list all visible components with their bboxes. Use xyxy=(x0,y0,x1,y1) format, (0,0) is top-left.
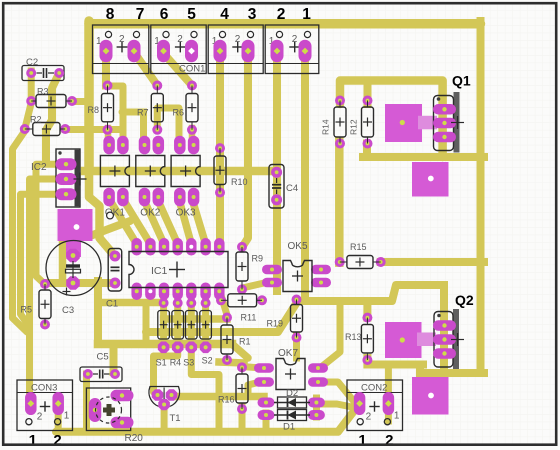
resistor R12 xyxy=(349,96,374,149)
wire S3 bottom to bottom bus xyxy=(191,347,219,431)
wire optocoupler pin to IC1 pin diagonal xyxy=(123,199,150,244)
wire left bus continues past IC2 to C1 xyxy=(89,166,113,254)
svg-text:7: 7 xyxy=(136,6,145,23)
hole marker right of IC2 xyxy=(107,212,114,219)
wire R13 bottom rail right xyxy=(367,358,423,365)
svg-text:R10: R10 xyxy=(231,177,248,187)
resistor R1 xyxy=(221,313,251,366)
svg-text:OK5: OK5 xyxy=(288,241,308,252)
resistor R15 xyxy=(335,242,386,269)
wire CON1 pin1 down through OK5 to rail xyxy=(301,51,309,301)
svg-text:R11: R11 xyxy=(241,313,257,323)
resistor R10 xyxy=(214,143,248,197)
connector CON3 xyxy=(17,380,73,449)
resistor R8 xyxy=(88,81,114,135)
capacitor C2 xyxy=(22,57,64,81)
wire CON1 pin8 to R8 xyxy=(102,51,110,86)
IC IC1 xyxy=(129,238,228,300)
optocoupler OK1 xyxy=(100,136,129,219)
wire R4 bottom to T1 left xyxy=(154,347,178,395)
wire rail to S1 top xyxy=(98,299,163,307)
wire rail to R1 top xyxy=(164,315,227,323)
resistor R16 xyxy=(218,362,248,414)
svg-text:R20: R20 xyxy=(125,433,144,444)
pad: plane below Q1 xyxy=(412,162,449,197)
wire diode column to CON2 xyxy=(317,404,353,407)
wire right bus vertical xyxy=(477,21,485,373)
wire jumper S3 column xyxy=(188,289,195,347)
jumper/resistor R4 xyxy=(170,298,184,368)
svg-text:IC2: IC2 xyxy=(31,162,47,173)
svg-text:D2: D2 xyxy=(286,388,298,399)
diode D2 xyxy=(258,388,325,408)
resistor R7 xyxy=(137,81,163,135)
jumper/resistor S2 xyxy=(200,298,213,366)
svg-text:3: 3 xyxy=(248,6,257,23)
svg-text:2: 2 xyxy=(53,432,61,449)
connector CON1 (4 blocks, pins 8..1) xyxy=(93,25,319,74)
wire C2 left pad to R3 left xyxy=(28,71,35,101)
wire top bus horizontal xyxy=(89,19,481,29)
pin numbers 8..1 xyxy=(106,6,312,23)
svg-text:8: 8 xyxy=(106,6,115,23)
wire R16 bottom to bottom bus xyxy=(239,407,246,431)
svg-text:2: 2 xyxy=(366,412,372,423)
wire R19 bottom down to OK7 xyxy=(293,336,300,358)
resistor R2 xyxy=(20,115,70,136)
wire Q1 top feed under package xyxy=(340,81,443,158)
IC IC2 xyxy=(31,149,87,207)
wire T1 rail branch up to OK7 pin xyxy=(248,382,260,396)
svg-text:IC1: IC1 xyxy=(151,265,168,277)
wire CON1 pin3 down to R9 xyxy=(242,51,248,247)
svg-text:OK2: OK2 xyxy=(140,208,160,219)
svg-text:R1: R1 xyxy=(239,337,251,347)
wire horizontal through OK1 OK2 OK3 to C4 xyxy=(85,167,273,176)
jumper/resistor S3 xyxy=(183,298,197,368)
svg-text:R19: R19 xyxy=(267,319,284,329)
wire R8 bottom to OK1 pin stub xyxy=(105,128,112,140)
wire optocoupler pin to IC1 pin diagonal xyxy=(109,199,137,244)
svg-text:R2: R2 xyxy=(30,115,42,125)
pad: large plane below IC2 xyxy=(58,209,93,257)
wire D2 D1 right pads join xyxy=(313,398,320,417)
wire diagonal to left bus xyxy=(90,221,130,236)
pad: bar to Q2 xyxy=(417,333,436,347)
wire IC1 pin down to rail xyxy=(133,288,140,303)
optocoupler OK7 xyxy=(254,348,328,390)
wire CON1 pin7 diagonal to R7 xyxy=(136,55,157,86)
svg-text:5: 5 xyxy=(187,6,196,23)
svg-text:C3: C3 xyxy=(62,305,74,316)
svg-text:T1: T1 xyxy=(170,413,181,424)
svg-text:1: 1 xyxy=(394,411,400,422)
resistor R14 xyxy=(321,96,347,149)
svg-text:S2: S2 xyxy=(202,356,213,366)
wire OK2 left pin stub up xyxy=(140,112,147,140)
svg-text:1: 1 xyxy=(302,6,311,23)
wire OK7 pin up to rail xyxy=(320,304,340,368)
wire R8 top elbow to OK1 pin xyxy=(108,86,124,140)
wire bottom bus to CON2 pad2 xyxy=(56,407,357,432)
wire Q1 bottom rail xyxy=(363,153,484,161)
wire R2 left down left edge then join xyxy=(13,131,28,332)
resistor R19 xyxy=(267,295,303,343)
svg-text:1: 1 xyxy=(29,432,37,449)
pad: Q1 drain plane xyxy=(385,104,422,142)
wire rail drop to C5 right pad xyxy=(110,344,118,372)
wire Q2 bottom link xyxy=(427,369,484,377)
wire R1 bottom rail to R16 top xyxy=(219,362,244,363)
wire rail drop into Q2 pad square xyxy=(416,365,424,381)
wire R16 top to OK7 pin xyxy=(242,367,262,369)
CON1 pads pins 8..1 xyxy=(100,40,312,63)
svg-text:R8: R8 xyxy=(88,105,100,115)
resistor R5 xyxy=(21,279,52,330)
wire D1 left to bottom bus xyxy=(263,413,270,431)
wire R12 top up to feed xyxy=(364,81,372,105)
svg-text:2: 2 xyxy=(385,432,393,449)
wire plane below IC2 down through C3 to rail xyxy=(59,241,67,281)
capacitor C3 electrolytic xyxy=(46,241,101,317)
wire jog to OK2 pin xyxy=(122,109,144,116)
svg-text:S1: S1 xyxy=(156,358,167,368)
wire CON1 pin2 down through C4 to OK5 xyxy=(273,51,281,291)
wire rail drop through CON2 pad1 to hole xyxy=(385,364,392,421)
wire R15 right to right bus xyxy=(381,258,484,266)
wire R12 bottom down xyxy=(363,144,371,158)
wire R3 left to R2 left xyxy=(25,103,31,129)
svg-text:CON2: CON2 xyxy=(361,383,387,394)
wire optocoupler pin to IC1 pin diagonal xyxy=(144,199,165,244)
svg-text:R9: R9 xyxy=(252,254,264,264)
wire T1 right to D2 left xyxy=(172,393,264,401)
svg-text:C4: C4 xyxy=(286,183,298,194)
resistor R9 xyxy=(236,242,263,295)
svg-text:CON3: CON3 xyxy=(31,383,57,394)
svg-text:OK3: OK3 xyxy=(176,208,196,219)
wire jumper S2 column xyxy=(202,289,209,347)
wire lower horizontal rail through jumper bottom pads xyxy=(98,340,232,349)
wire T1 center pin down xyxy=(161,404,168,431)
wire R9 bottom to OK5 pin xyxy=(242,283,264,288)
wire C2 right pad down through R3 R2 bodies xyxy=(46,73,59,164)
wire CON1 pin4 down through R10 to IC1 pin xyxy=(216,51,224,248)
svg-text:R4: R4 xyxy=(170,358,182,368)
wire R2 right to pin column xyxy=(65,126,123,133)
wire Q2 under package vertical xyxy=(440,285,448,373)
svg-text:R15: R15 xyxy=(350,242,367,252)
svg-text:D1: D1 xyxy=(283,422,295,433)
wire rail drop right of C3 xyxy=(94,281,102,344)
svg-text:1: 1 xyxy=(358,432,366,449)
trimmer R20 xyxy=(86,388,143,444)
svg-text:1: 1 xyxy=(64,411,70,422)
svg-text:S3: S3 xyxy=(183,358,194,368)
resistor R6 xyxy=(173,81,199,135)
diode D1 xyxy=(258,410,325,433)
svg-text:6: 6 xyxy=(160,6,169,23)
capacitor C1 xyxy=(106,249,122,310)
wire into R20 wiper pad xyxy=(87,406,95,413)
wire IC2 pin2 down to CON3 pad 2 xyxy=(30,179,67,401)
wire IC2 pin3 down then join xyxy=(21,194,67,327)
wire optocoupler pin to IC1 pin diagonal xyxy=(157,199,177,244)
wire OK7 pin down to CON2 pad2 xyxy=(320,382,356,404)
svg-text:OK7: OK7 xyxy=(278,348,298,359)
wire left bus vertical upper xyxy=(84,21,94,171)
transistor Q2 xyxy=(433,292,474,369)
wire optocoupler pin to IC1 pin diagonal xyxy=(179,199,191,244)
capacitor C4 xyxy=(269,165,298,209)
svg-text:CON1: CON1 xyxy=(179,64,205,75)
pad: Q2 drain plane xyxy=(385,322,422,358)
wire R3 right to left bus xyxy=(72,98,89,105)
svg-text:C2: C2 xyxy=(26,57,38,68)
pad: plane below Q2 xyxy=(412,377,449,415)
svg-text:2: 2 xyxy=(37,412,43,423)
wire jog from rail up to Q2 feed xyxy=(362,285,444,373)
svg-text:R13: R13 xyxy=(345,332,362,342)
wire R6 bottom to OK3 pin stub xyxy=(189,128,196,140)
wire optocoupler pin to IC1 pin diagonal xyxy=(192,199,206,244)
wire CON1 pin6 diagonal to R6 xyxy=(165,55,192,86)
wire rail to R13 top xyxy=(363,301,371,318)
svg-text:C1: C1 xyxy=(106,299,118,310)
svg-text:C5: C5 xyxy=(97,352,109,363)
wire R7 bottom over to OK3 pin xyxy=(157,108,179,140)
wire rail drop to lower rail xyxy=(143,303,150,345)
svg-text:Q2: Q2 xyxy=(455,292,474,308)
svg-text:2: 2 xyxy=(277,6,286,23)
jumper/resistor S1 xyxy=(156,298,170,368)
svg-text:R14: R14 xyxy=(321,119,331,135)
wire long rail to R19 top diagonal xyxy=(146,303,297,332)
optocoupler OK3 xyxy=(171,136,200,219)
svg-text:R3: R3 xyxy=(37,87,49,97)
svg-text:R16: R16 xyxy=(218,395,235,405)
wire R20 pad stub to bus xyxy=(119,421,125,431)
optocoupler OK5 xyxy=(262,241,331,292)
wire rail R5 top C3 bottom C1 bottom xyxy=(45,279,115,287)
wire R14 bottom long drop to R15 xyxy=(335,141,344,263)
wire jumper S1 column xyxy=(160,289,167,347)
wire lower rail diagonal to R1 bottom rail xyxy=(232,344,248,358)
svg-text:R5: R5 xyxy=(21,305,33,315)
connector CON2 xyxy=(347,380,403,449)
wire OK5 rail to R13 xyxy=(303,297,368,305)
svg-text:Q1: Q1 xyxy=(452,73,471,89)
resistor R3 xyxy=(26,87,77,108)
resistor R11 xyxy=(216,294,267,323)
resistor R13 xyxy=(345,313,373,365)
optocoupler OK2 xyxy=(136,136,165,219)
wire CON3 pad1 down to bottom bus xyxy=(55,410,62,431)
wire R4 column xyxy=(174,289,181,347)
transistor Q1 xyxy=(433,73,471,153)
wire IC1 pin7 to R1 top xyxy=(220,291,227,315)
svg-text:R7: R7 xyxy=(137,108,149,118)
wire C5 left down through R20 to bottom bus xyxy=(83,374,90,431)
pad: bar to Q1 xyxy=(418,116,437,130)
svg-text:R6: R6 xyxy=(173,108,185,118)
wire IC2 pin1 left then down to R5 top xyxy=(36,164,66,284)
capacitor C5 xyxy=(80,352,122,382)
svg-text:4: 4 xyxy=(220,6,229,23)
svg-text:R12: R12 xyxy=(349,119,359,135)
transistor T1 xyxy=(149,387,181,425)
